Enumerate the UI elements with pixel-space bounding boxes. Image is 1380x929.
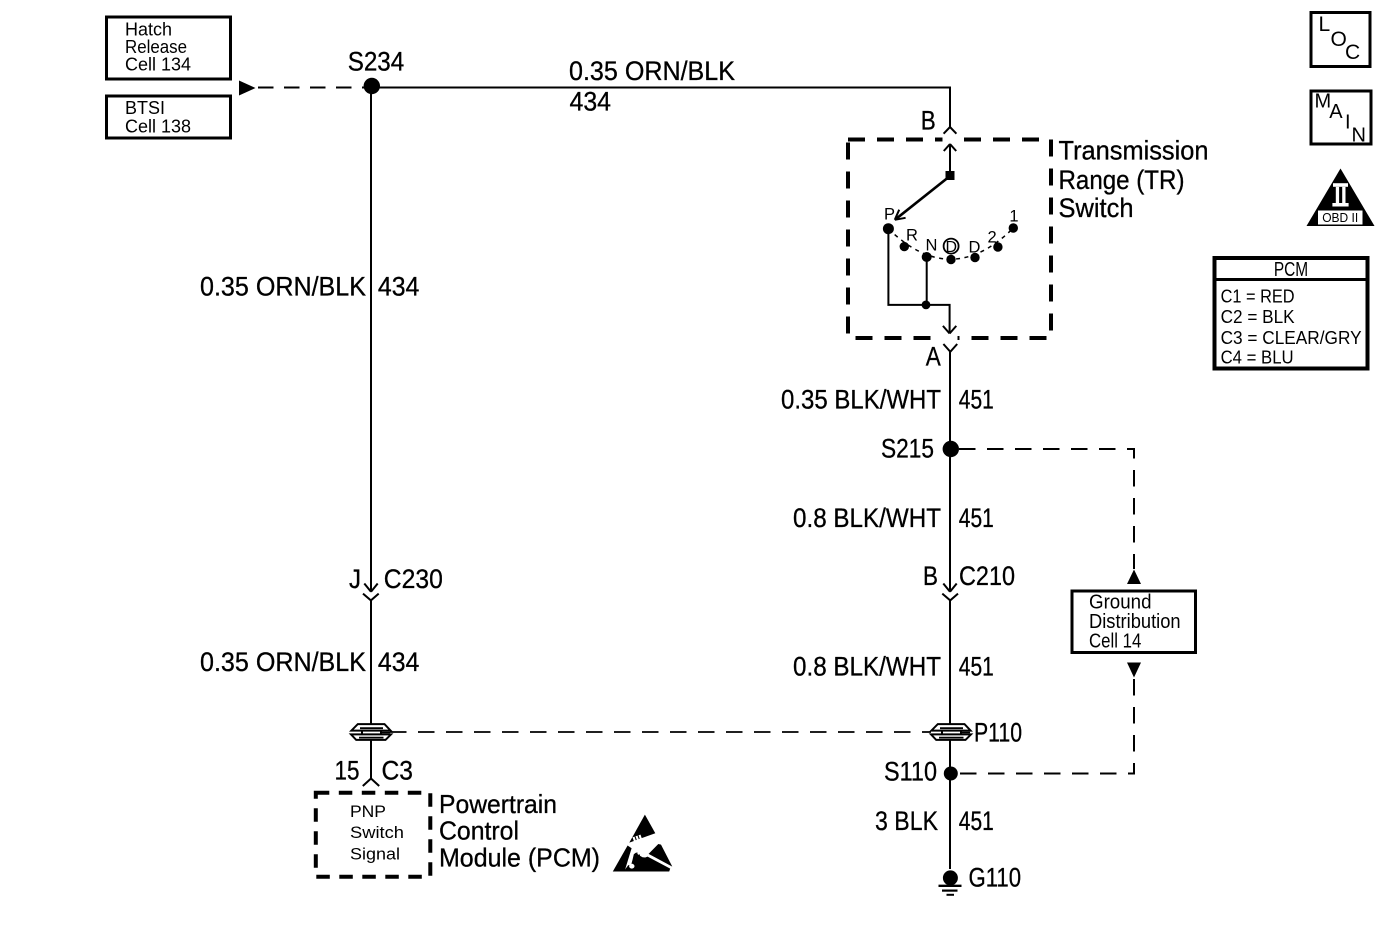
svg-text:R: R <box>906 227 918 245</box>
svg-text:434: 434 <box>378 647 420 677</box>
svg-text:0.8 BLK/WHT: 0.8 BLK/WHT <box>793 651 941 681</box>
svg-text:434: 434 <box>570 86 612 116</box>
svg-text:0.35 BLK/WHT: 0.35 BLK/WHT <box>781 385 941 415</box>
svg-text:C230: C230 <box>384 564 443 594</box>
svg-text:L: L <box>1319 13 1331 36</box>
svg-text:P: P <box>884 206 895 224</box>
svg-text:3 BLK: 3 BLK <box>875 806 938 836</box>
svg-text:N: N <box>1352 125 1366 147</box>
svg-text:C2 = BLK: C2 = BLK <box>1221 307 1295 327</box>
svg-text:Control: Control <box>439 815 519 845</box>
svg-text:Cell 14: Cell 14 <box>1089 631 1141 653</box>
svg-text:P110: P110 <box>974 718 1022 748</box>
svg-text:2: 2 <box>988 229 997 247</box>
svg-text:C210: C210 <box>959 561 1015 591</box>
svg-text:A: A <box>1329 101 1343 123</box>
svg-text:S110: S110 <box>884 757 937 787</box>
svg-text:C1 = RED: C1 = RED <box>1221 286 1295 306</box>
svg-text:D: D <box>969 239 981 257</box>
svg-text:B: B <box>921 106 936 136</box>
svg-text:PNP: PNP <box>350 802 386 821</box>
svg-text:C3: C3 <box>382 756 414 786</box>
svg-text:451: 451 <box>959 385 994 415</box>
svg-text:S234: S234 <box>348 47 405 77</box>
svg-text:0.8 BLK/WHT: 0.8 BLK/WHT <box>793 503 941 533</box>
svg-text:Module (PCM): Module (PCM) <box>439 842 600 872</box>
svg-text:B: B <box>923 561 938 591</box>
svg-text:1: 1 <box>1009 208 1018 226</box>
svg-text:434: 434 <box>378 272 420 302</box>
svg-text:Switch: Switch <box>350 823 404 842</box>
svg-text:C: C <box>1345 41 1360 64</box>
svg-text:Distribution: Distribution <box>1089 611 1181 633</box>
svg-text:OBD II: OBD II <box>1322 211 1358 225</box>
svg-text:15: 15 <box>335 756 360 786</box>
svg-text:J: J <box>349 564 361 594</box>
svg-text:0.35 ORN/BLK: 0.35 ORN/BLK <box>569 56 735 86</box>
svg-text:Range (TR): Range (TR) <box>1059 165 1185 195</box>
svg-text:C4 = BLU: C4 = BLU <box>1221 348 1294 368</box>
svg-text:D: D <box>946 239 958 256</box>
svg-text:G110: G110 <box>969 863 1022 893</box>
svg-text:PCM: PCM <box>1274 259 1308 281</box>
svg-text:Cell 138: Cell 138 <box>125 117 191 137</box>
svg-text:Signal: Signal <box>350 844 400 863</box>
svg-text:0.35 ORN/BLK: 0.35 ORN/BLK <box>200 272 366 302</box>
svg-text:I: I <box>1345 111 1351 133</box>
svg-text:Cell 134: Cell 134 <box>125 55 191 75</box>
svg-text:Ground: Ground <box>1089 591 1152 613</box>
svg-text:BTSI: BTSI <box>125 98 165 118</box>
svg-text:Transmission: Transmission <box>1059 136 1209 166</box>
svg-text:451: 451 <box>959 806 994 836</box>
svg-text:0.35 ORN/BLK: 0.35 ORN/BLK <box>200 647 366 677</box>
svg-text:Switch: Switch <box>1059 193 1134 223</box>
svg-text:N: N <box>926 237 938 255</box>
svg-text:A: A <box>926 341 941 371</box>
svg-text:Powertrain: Powertrain <box>439 789 557 819</box>
svg-text:451: 451 <box>959 651 994 681</box>
svg-text:451: 451 <box>959 503 994 533</box>
svg-text:S215: S215 <box>881 434 934 464</box>
svg-text:C3 = CLEAR/GRY: C3 = CLEAR/GRY <box>1221 328 1362 348</box>
